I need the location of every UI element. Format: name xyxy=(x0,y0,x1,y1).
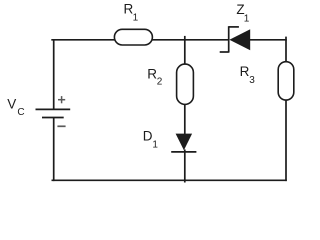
zener diode Z1 triangle xyxy=(229,29,250,50)
svg-text:V: V xyxy=(7,96,16,111)
battery VC top plate xyxy=(36,108,71,110)
diode D1 triangle xyxy=(176,134,193,151)
zener diode Z1 bottom hook xyxy=(220,51,229,53)
svg-text:D: D xyxy=(143,129,153,144)
zener diode Z1 top hook xyxy=(229,26,239,28)
wire right vertical lower xyxy=(285,100,287,181)
wire top rail right segment xyxy=(250,39,287,41)
battery VC bottom plate xyxy=(42,117,64,119)
wire bottom rail xyxy=(52,179,287,181)
svg-text:1: 1 xyxy=(244,13,250,24)
resistor R3 body xyxy=(278,62,294,100)
battery minus sign xyxy=(57,125,65,127)
wire top rail middle segment xyxy=(152,39,229,41)
svg-text:1: 1 xyxy=(152,140,158,151)
svg-text:C: C xyxy=(17,107,24,118)
wire right vertical upper xyxy=(285,37,287,62)
node junction tick and wire from top rail to R2 xyxy=(184,36,186,65)
svg-text:3: 3 xyxy=(249,75,255,86)
wire left vertical upper xyxy=(53,39,55,109)
svg-text:R: R xyxy=(240,64,250,79)
wire top rail left segment xyxy=(51,39,115,41)
diode D1 cathode bar xyxy=(171,151,196,153)
wire left vertical lower xyxy=(53,118,55,182)
zener diode Z1 cathode bar xyxy=(228,26,230,52)
resistor R2 body xyxy=(177,64,194,104)
wire D1 to bottom rail xyxy=(184,150,186,183)
svg-text:1: 1 xyxy=(133,13,139,24)
wire R2 to D1 xyxy=(184,104,186,134)
svg-text:2: 2 xyxy=(157,77,163,88)
svg-text:R: R xyxy=(147,66,157,81)
battery plus sign xyxy=(58,96,65,103)
resistor R1 body xyxy=(114,29,152,45)
